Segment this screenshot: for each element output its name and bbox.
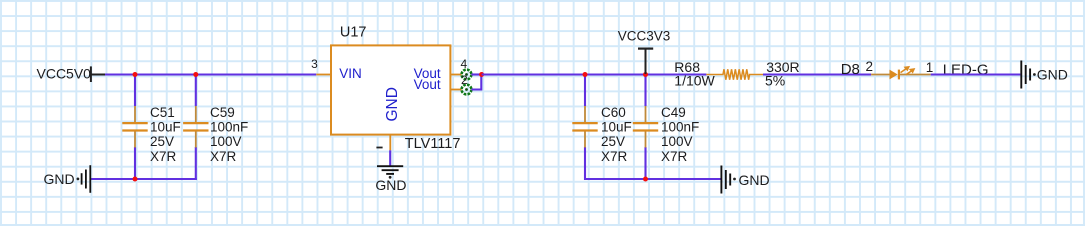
svg-text:100V: 100V [661,134,693,149]
svg-text:10uF: 10uF [601,120,632,135]
svg-text:TLV1117: TLV1117 [405,136,461,152]
regulator U17 body [331,45,450,134]
wire: R68 to D8 [763,73,871,75]
wire: junction to R68 [482,73,707,75]
capacitor C59 [183,105,248,164]
svg-text:GND: GND [384,87,401,121]
resistor R68 [674,59,799,88]
svg-text:U17: U17 [340,25,367,41]
svg-text:VCC5V0: VCC5V0 [37,66,92,82]
svg-text:GND: GND [739,172,770,188]
svg-text:LED-G: LED-G [943,61,989,78]
svg-text:X7R: X7R [661,149,688,164]
wire: bottom-right ground rail [585,178,721,180]
wire: C49 bottom drop [644,147,646,179]
wire: pin 2 L-shape up [471,75,481,90]
pin 4 Vout (top right) [414,57,472,81]
capacitor C51 [122,105,180,164]
svg-text:C60: C60 [601,105,626,120]
svg-text:3: 3 [311,57,318,71]
svg-text:4: 4 [460,57,467,71]
wire: C49 top drop [644,75,646,107]
wire: C60 top drop [584,75,586,107]
net port VCC5V0 [37,66,106,82]
svg-text:25V: 25V [150,134,174,149]
svg-text:X7R: X7R [210,149,237,164]
junction: C60 top [583,72,588,77]
svg-text:100nF: 100nF [210,120,248,135]
svg-text:GND: GND [1037,66,1068,82]
svg-text:25V: 25V [601,134,625,149]
wire: C59 bottom drop [195,147,197,180]
pin 3 VIN [311,57,362,81]
junction: pin4/pin2 [479,72,484,77]
svg-text:2: 2 [865,59,873,74]
svg-text:GND: GND [375,177,406,193]
ground (below U17) [375,166,406,193]
wire: U17 GND pin to ground [389,150,391,166]
junction: C49 top [643,72,648,77]
junction: C59 top [193,72,198,77]
svg-text:X7R: X7R [150,149,177,164]
LED D8 [841,59,934,80]
svg-text:X7R: X7R [601,149,628,164]
svg-text:D8: D8 [841,61,860,78]
wire: C60 bottom drop [584,147,586,180]
ground (mid right) [721,166,769,194]
svg-text:1/10W: 1/10W [674,72,715,88]
junction: C49 bottom [643,177,648,182]
ground (left) [44,165,91,193]
wire: C51 bottom drop [134,147,136,179]
ground (far right) [1021,61,1068,89]
wire: bottom-left ground rail [91,178,197,180]
junction: C51 bottom [133,177,138,182]
pin 1 GND (bottom) [376,87,401,150]
svg-text:C59: C59 [210,105,235,120]
pin 2 Vout (lower right) [414,73,472,95]
svg-text:2: 2 [461,73,468,87]
junction: C51 top [133,72,138,77]
svg-text:10uF: 10uF [150,120,181,135]
svg-text:100nF: 100nF [661,120,699,135]
wire: VCC5V0 to U17 pin 3 [105,73,316,75]
svg-text:100V: 100V [210,134,242,149]
wire: pin 4 to junction [471,73,481,75]
capacitor C49 [633,105,699,164]
svg-text:1: 1 [926,60,934,75]
svg-text:VCC3V3: VCC3V3 [618,29,671,44]
wire: C59 top drop [195,75,197,107]
wire: C51 top drop [134,75,136,107]
wire: D8 to ground [931,73,1021,75]
svg-text:Vout: Vout [414,77,441,92]
svg-text:VIN: VIN [339,66,362,81]
svg-text:GND: GND [44,171,75,187]
power VCC3V3 [618,29,671,74]
svg-text:C49: C49 [661,105,686,120]
capacitor C60 [572,105,631,164]
svg-text:C51: C51 [150,105,175,120]
